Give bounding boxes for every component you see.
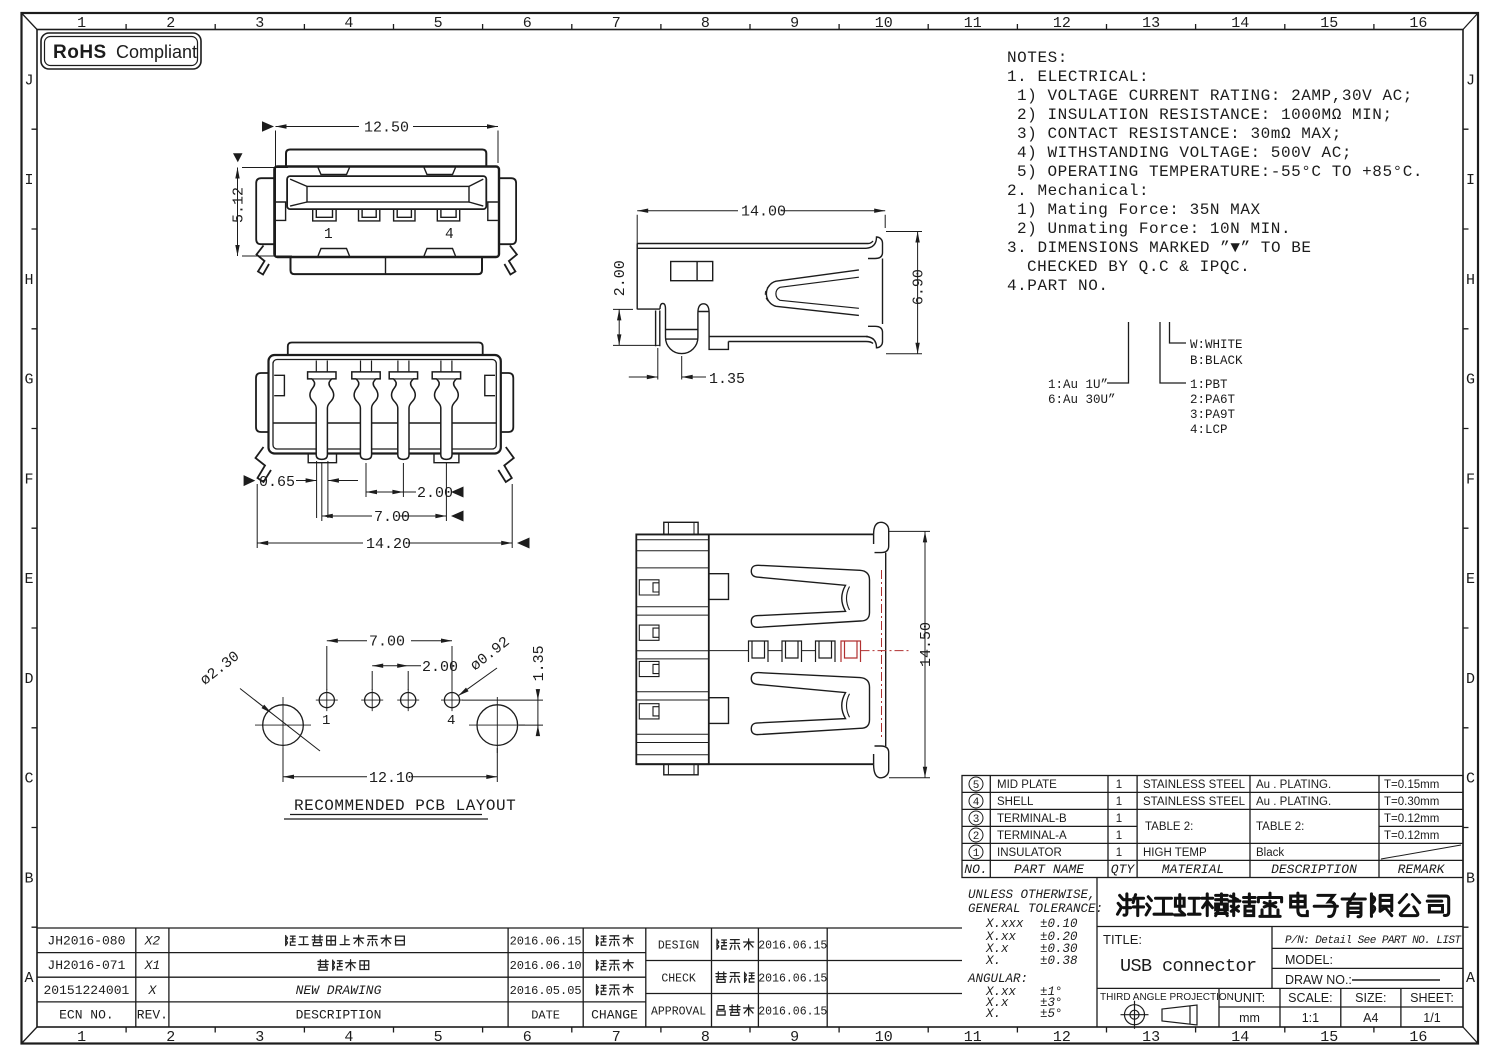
svg-text:DATE: DATE [531, 1008, 560, 1022]
svg-text:6:Au 30U”: 6:Au 30U” [1048, 393, 1116, 407]
svg-text:W:WHITE: W:WHITE [1190, 338, 1243, 352]
svg-text:5: 5 [434, 1029, 443, 1046]
mounting hole left [263, 705, 304, 746]
svg-text:THIRD ANGLE PROJECTION: THIRD ANGLE PROJECTION [1100, 992, 1234, 1003]
svg-text:D: D [24, 671, 33, 688]
svg-text:T=0.12mm: T=0.12mm [1384, 813, 1439, 825]
center line [709, 650, 816, 652]
svg-text:X1: X1 [144, 958, 161, 973]
spring contact [766, 270, 859, 316]
svg-text:1:1: 1:1 [1302, 1011, 1319, 1025]
svg-text:A: A [24, 970, 33, 987]
interface bumps [709, 574, 729, 724]
dimension 1.35 [629, 348, 706, 380]
svg-text:G: G [1466, 372, 1475, 389]
right edge [882, 259, 884, 325]
svg-text:RECOMMENDED PCB LAYOUT: RECOMMENDED PCB LAYOUT [294, 797, 516, 815]
svg-text:X.xxx: X.xxx [985, 917, 1024, 931]
svg-text:7: 7 [612, 15, 621, 32]
svg-text:16: 16 [1409, 15, 1427, 32]
svg-text:I: I [24, 172, 33, 189]
svg-text:C: C [24, 771, 33, 788]
svg-text:Au . PLATING.: Au . PLATING. [1256, 796, 1331, 808]
title block [1097, 878, 1463, 1028]
through-hole pin [660, 303, 709, 353]
svg-text:G: G [24, 372, 33, 389]
svg-text:1: 1 [1116, 847, 1122, 859]
svg-text:H: H [24, 272, 33, 289]
svg-text:A4: A4 [1363, 1011, 1378, 1025]
svg-text:11: 11 [964, 1029, 982, 1046]
svg-text:1: 1 [1116, 796, 1122, 808]
svg-text:3: 3 [973, 814, 980, 826]
svg-text:TABLE 2:: TABLE 2: [1145, 821, 1193, 833]
svg-text:E: E [24, 571, 33, 588]
dimension 2.00 [372, 666, 421, 690]
svg-text:PART NAME: PART NAME [1014, 862, 1084, 877]
VIEW 1: connector front view [256, 150, 517, 275]
USB tongue opening [287, 176, 486, 209]
top tab [664, 522, 698, 534]
svg-text:2016.05.05: 2016.05.05 [510, 984, 582, 998]
dimension 7.00 [322, 463, 447, 521]
left bottom step [637, 309, 660, 346]
svg-text:15: 15 [1320, 15, 1338, 32]
svg-text:1: 1 [1116, 779, 1122, 791]
svg-text:1: 1 [1116, 813, 1122, 825]
face outer [269, 355, 501, 454]
right wing [501, 373, 514, 432]
bottom spring contact [751, 673, 869, 735]
svg-text:CHECK: CHECK [661, 973, 696, 986]
diameter 2.30 leader [240, 689, 320, 752]
svg-text:B: B [1466, 870, 1475, 887]
dimension 6.90 [886, 232, 922, 354]
shell left edge [636, 244, 638, 310]
dimension 7.00 [327, 641, 452, 690]
svg-text:UNIT:: UNIT: [1234, 991, 1265, 1005]
svg-text:JH2016-080: JH2016-080 [47, 934, 125, 949]
svg-text:REV.: REV. [137, 1007, 168, 1022]
svg-text:1. ELECTRICAL:: 1. ELECTRICAL: [1007, 68, 1149, 86]
svg-text:12: 12 [1053, 1029, 1071, 1046]
svg-text:4.PART NO.: 4.PART NO. [1007, 277, 1109, 295]
svg-text:INSULATOR: INSULATOR [997, 847, 1062, 859]
dimension 12.10 [283, 748, 497, 782]
svg-text:3: 3 [255, 1029, 264, 1046]
svg-text:4: 4 [447, 713, 455, 729]
svg-text:X.: X. [985, 954, 1001, 968]
top right curl [874, 522, 889, 552]
svg-text:4: 4 [344, 1029, 353, 1046]
dimension 14.20 [257, 484, 512, 548]
shell top flange [286, 150, 486, 168]
svg-text:MID PLATE: MID PLATE [997, 779, 1057, 791]
svg-text:1) Mating Force: 35N MAX: 1) Mating Force: 35N MAX [1017, 201, 1261, 219]
VIEW 4: top view [636, 522, 888, 778]
svg-text:1: 1 [324, 227, 333, 243]
svg-text:1:PBT: 1:PBT [1190, 378, 1228, 392]
svg-text:mm: mm [1239, 1011, 1260, 1025]
svg-text:13: 13 [1142, 1029, 1160, 1046]
svg-text:B: B [24, 870, 33, 887]
svg-text:2:PA6T: 2:PA6T [1190, 393, 1236, 407]
svg-text:0.65: 0.65 [259, 474, 295, 491]
svg-text:TERMINAL-A: TERMINAL-A [997, 830, 1067, 842]
pin hole [401, 693, 416, 708]
solder hook right [504, 246, 517, 275]
shell bottom flange [291, 257, 483, 274]
svg-text:1: 1 [77, 1029, 86, 1046]
svg-text:±5°: ±5° [1040, 1007, 1063, 1021]
svg-text:16: 16 [1409, 1029, 1427, 1046]
svg-text:X2: X2 [144, 934, 161, 949]
VIEW 2: front section view with terminals [256, 343, 513, 454]
front face outline [274, 167, 499, 258]
svg-text:1.35: 1.35 [709, 371, 745, 388]
svg-text:X: X [147, 983, 157, 998]
svg-text:7.00: 7.00 [369, 634, 405, 651]
svg-text:10: 10 [875, 15, 893, 32]
bottom tabs [308, 454, 459, 463]
svg-text:E: E [1466, 571, 1475, 588]
company name (CJK approximated) [1117, 893, 1448, 917]
svg-text:2: 2 [973, 831, 980, 843]
svg-text:14: 14 [1231, 15, 1249, 32]
terminal stack lines [636, 540, 709, 755]
pin hole [365, 693, 380, 708]
svg-text:4: 4 [445, 227, 454, 243]
svg-text:B:BLACK: B:BLACK [1190, 354, 1243, 368]
svg-text:SHELL: SHELL [997, 796, 1034, 808]
svg-text:D: D [1466, 671, 1475, 688]
svg-text:J: J [1466, 72, 1475, 89]
dimension 1.35 [462, 689, 543, 736]
svg-text:6.90: 6.90 [911, 269, 928, 305]
svg-text:±0.38: ±0.38 [1040, 954, 1078, 968]
bottom foot [709, 342, 728, 350]
dimension 0.65 [296, 461, 358, 518]
svg-text:±0.10: ±0.10 [1040, 917, 1078, 931]
svg-text:Au . PLATING.: Au . PLATING. [1256, 779, 1331, 791]
svg-text:20151224001: 20151224001 [43, 983, 129, 998]
svg-text:QTY: QTY [1111, 862, 1136, 877]
svg-text:I: I [1466, 172, 1475, 189]
svg-text:NEW DRAWING: NEW DRAWING [296, 983, 382, 998]
solder hook left [256, 447, 272, 482]
svg-text:5.12: 5.12 [231, 187, 248, 223]
svg-text:5) OPERATING TEMPERATURE:-55°C: 5) OPERATING TEMPERATURE:-55°C TO +85°C. [1017, 163, 1423, 181]
svg-text:H: H [1466, 272, 1475, 289]
revision table [37, 928, 962, 1027]
bottom right rolled tab [866, 326, 883, 348]
svg-text:DRAW NO.:: DRAW NO.: [1285, 973, 1352, 987]
face inner [273, 360, 496, 450]
svg-text:1: 1 [1116, 830, 1122, 842]
svg-text:SIZE:: SIZE: [1355, 991, 1386, 1005]
svg-text:STAINLESS STEEL: STAINLESS STEEL [1143, 796, 1246, 808]
svg-text:10: 10 [875, 1029, 893, 1046]
svg-text:2: 2 [166, 15, 175, 32]
svg-text:SCALE:: SCALE: [1288, 991, 1332, 1005]
svg-text:1: 1 [77, 15, 86, 32]
shell top edge [637, 244, 868, 249]
svg-text:1) VOLTAGE CURRENT RATING: 2AM: 1) VOLTAGE CURRENT RATING: 2AMP,30V AC; [1017, 87, 1413, 105]
svg-text:1: 1 [973, 848, 980, 860]
svg-text:SHEET:: SHEET: [1410, 991, 1454, 1005]
svg-text:8: 8 [701, 15, 710, 32]
svg-text:CHECKED BY Q.C & IPQC.: CHECKED BY Q.C & IPQC. [1027, 258, 1250, 276]
svg-text:3. DIMENSIONS MARKED ”▼” TO BE: 3. DIMENSIONS MARKED ”▼” TO BE [1007, 239, 1312, 257]
svg-text:14.20: 14.20 [366, 536, 411, 553]
shell outline [636, 534, 873, 764]
svg-text:2.00: 2.00 [612, 260, 629, 296]
svg-text:Black: Black [1256, 847, 1284, 859]
svg-text:F: F [1466, 471, 1475, 488]
shell bottom edge [709, 337, 868, 342]
svg-text:X.: X. [985, 1007, 1001, 1021]
svg-text:9: 9 [790, 15, 799, 32]
VIEW 5: recommended PCB layout [255, 689, 525, 753]
svg-text:2016.06.15: 2016.06.15 [758, 973, 827, 986]
diameter 0.92 leader [458, 668, 497, 696]
inner latch detail [671, 262, 713, 281]
mounting hole right [477, 705, 518, 746]
pin hole [319, 693, 334, 708]
svg-text:3) CONTACT RESISTANCE: 30mΩ MA: 3) CONTACT RESISTANCE: 30mΩ MAX; [1017, 125, 1342, 143]
left wing [256, 178, 274, 244]
rear insulator block [636, 534, 709, 764]
svg-text:T=0.12mm: T=0.12mm [1384, 830, 1439, 842]
svg-text:1:Au 1U”: 1:Au 1U” [1048, 378, 1108, 392]
solder hook right [498, 447, 514, 482]
svg-text:HIGH TEMP: HIGH TEMP [1143, 847, 1207, 859]
solder hook left [257, 246, 270, 275]
svg-text:A: A [1466, 970, 1475, 987]
svg-text:2016.06.15: 2016.06.15 [510, 935, 582, 949]
right edge [874, 534, 886, 764]
middle contacts [749, 641, 769, 662]
svg-text:ANGULAR:: ANGULAR: [967, 972, 1028, 986]
svg-text:STAINLESS STEEL: STAINLESS STEEL [1143, 779, 1246, 791]
svg-text:DESCRIPTION: DESCRIPTION [296, 1007, 382, 1022]
svg-text:CHANGE: CHANGE [591, 1007, 638, 1022]
svg-text:2016.06.10: 2016.06.10 [510, 959, 582, 973]
svg-text:14.00: 14.00 [741, 204, 786, 221]
svg-text:JH2016-071: JH2016-071 [47, 958, 125, 973]
svg-text:TERMINAL-B: TERMINAL-B [997, 813, 1067, 825]
svg-text:9: 9 [790, 1029, 799, 1046]
svg-text:NO.: NO. [964, 862, 987, 877]
dimension 14.00 [637, 211, 885, 247]
svg-text:8: 8 [701, 1029, 710, 1046]
svg-text:4:LCP: 4:LCP [1190, 423, 1228, 437]
svg-text:MODEL:: MODEL: [1285, 953, 1333, 967]
bottom right curl [874, 746, 889, 778]
svg-text:2016.06.15: 2016.06.15 [758, 1006, 827, 1019]
dimension 5.12 [238, 168, 293, 257]
svg-text:2: 2 [166, 1029, 175, 1046]
svg-text:4: 4 [344, 15, 353, 32]
dimension 2.00 [613, 309, 660, 345]
svg-text:C: C [1466, 771, 1475, 788]
svg-text:1: 1 [322, 713, 330, 729]
svg-text:2016.06.15: 2016.06.15 [758, 940, 827, 953]
svg-text:TITLE:: TITLE: [1103, 932, 1142, 947]
svg-text:14: 14 [1231, 1029, 1249, 1046]
dimension 14.50 [889, 531, 930, 777]
svg-text:P/N: Detail See PART NO. LIST: P/N: Detail See PART NO. LIST [1285, 935, 1462, 947]
svg-text:TABLE 2:: TABLE 2: [1256, 821, 1304, 833]
VIEW 3: side view [637, 237, 882, 354]
revision table CJK texts (approximated) [286, 935, 754, 1016]
right wing [499, 178, 516, 244]
svg-text:DESIGN: DESIGN [658, 940, 699, 953]
svg-text:NOTES:: NOTES: [1007, 49, 1068, 67]
svg-text:UNLESS OTHERWISE,: UNLESS OTHERWISE, [968, 888, 1096, 902]
third angle projection symbol [1121, 1001, 1198, 1029]
svg-text:USB connector: USB connector [1120, 956, 1257, 977]
svg-text:14.50: 14.50 [918, 622, 935, 667]
bottom tab [664, 764, 698, 775]
svg-text:T=0.30mm: T=0.30mm [1384, 796, 1439, 808]
svg-text:2. Mechanical:: 2. Mechanical: [1007, 182, 1149, 200]
svg-text:12.10: 12.10 [369, 770, 414, 787]
svg-text:7.00: 7.00 [374, 509, 410, 526]
svg-text:RoHS: RoHS [53, 42, 107, 63]
left wing [256, 373, 269, 432]
svg-text:F: F [24, 471, 33, 488]
svg-text:2) Unmating Force: 10N MIN.: 2) Unmating Force: 10N MIN. [1017, 220, 1291, 238]
svg-text:J: J [24, 72, 33, 89]
svg-text:DESCRIPTION: DESCRIPTION [1271, 862, 1357, 877]
svg-text:3:PA9T: 3:PA9T [1190, 408, 1236, 422]
svg-text:2.00: 2.00 [422, 659, 458, 676]
terminals 1-4 [308, 372, 336, 460]
svg-text:11: 11 [964, 15, 982, 32]
svg-text:7: 7 [612, 1029, 621, 1046]
top spring contact [751, 565, 869, 627]
svg-text:4: 4 [973, 797, 980, 809]
dimension 2.00 [366, 463, 416, 497]
svg-text:5: 5 [434, 15, 443, 32]
remark cell diagonal [1381, 845, 1461, 859]
top flange [288, 343, 483, 356]
pin hole [444, 693, 459, 708]
svg-text:6: 6 [523, 15, 532, 32]
svg-text:5: 5 [973, 780, 980, 792]
top right rolled tab [866, 237, 883, 259]
svg-text:Compliant: Compliant [116, 42, 197, 62]
part number tree [1107, 322, 1186, 383]
NOTES text block [1007, 49, 1423, 295]
svg-text:12.50: 12.50 [364, 120, 409, 137]
dimension 12.50 [276, 127, 499, 258]
insulator step line [273, 422, 496, 424]
middle contact (red) [841, 570, 911, 740]
svg-text:2.00: 2.00 [417, 485, 453, 502]
svg-text:1.35: 1.35 [531, 645, 548, 681]
svg-text:T=0.15mm: T=0.15mm [1384, 779, 1439, 791]
parts list table [962, 776, 1463, 878]
svg-text:1/1: 1/1 [1423, 1011, 1440, 1025]
svg-text:4) WITHSTANDING VOLTAGE: 500V: 4) WITHSTANDING VOLTAGE: 500V AC; [1017, 144, 1352, 162]
svg-text:ECN NO.: ECN NO. [59, 1007, 114, 1022]
svg-text:6: 6 [523, 1029, 532, 1046]
svg-text:13: 13 [1142, 15, 1160, 32]
svg-text:MATERIAL: MATERIAL [1162, 862, 1224, 877]
svg-text:GENERAL TOLERANCE:: GENERAL TOLERANCE: [968, 902, 1103, 916]
svg-text:15: 15 [1320, 1029, 1338, 1046]
svg-text:12: 12 [1053, 15, 1071, 32]
RoHS label box [41, 33, 201, 69]
svg-text:2) INSULATION RESISTANCE: 1000: 2) INSULATION RESISTANCE: 1000MΩ MIN; [1017, 106, 1393, 124]
svg-text:REMARK: REMARK [1398, 862, 1446, 877]
svg-text:APPROVAL: APPROVAL [651, 1006, 706, 1019]
svg-text:3: 3 [255, 15, 264, 32]
